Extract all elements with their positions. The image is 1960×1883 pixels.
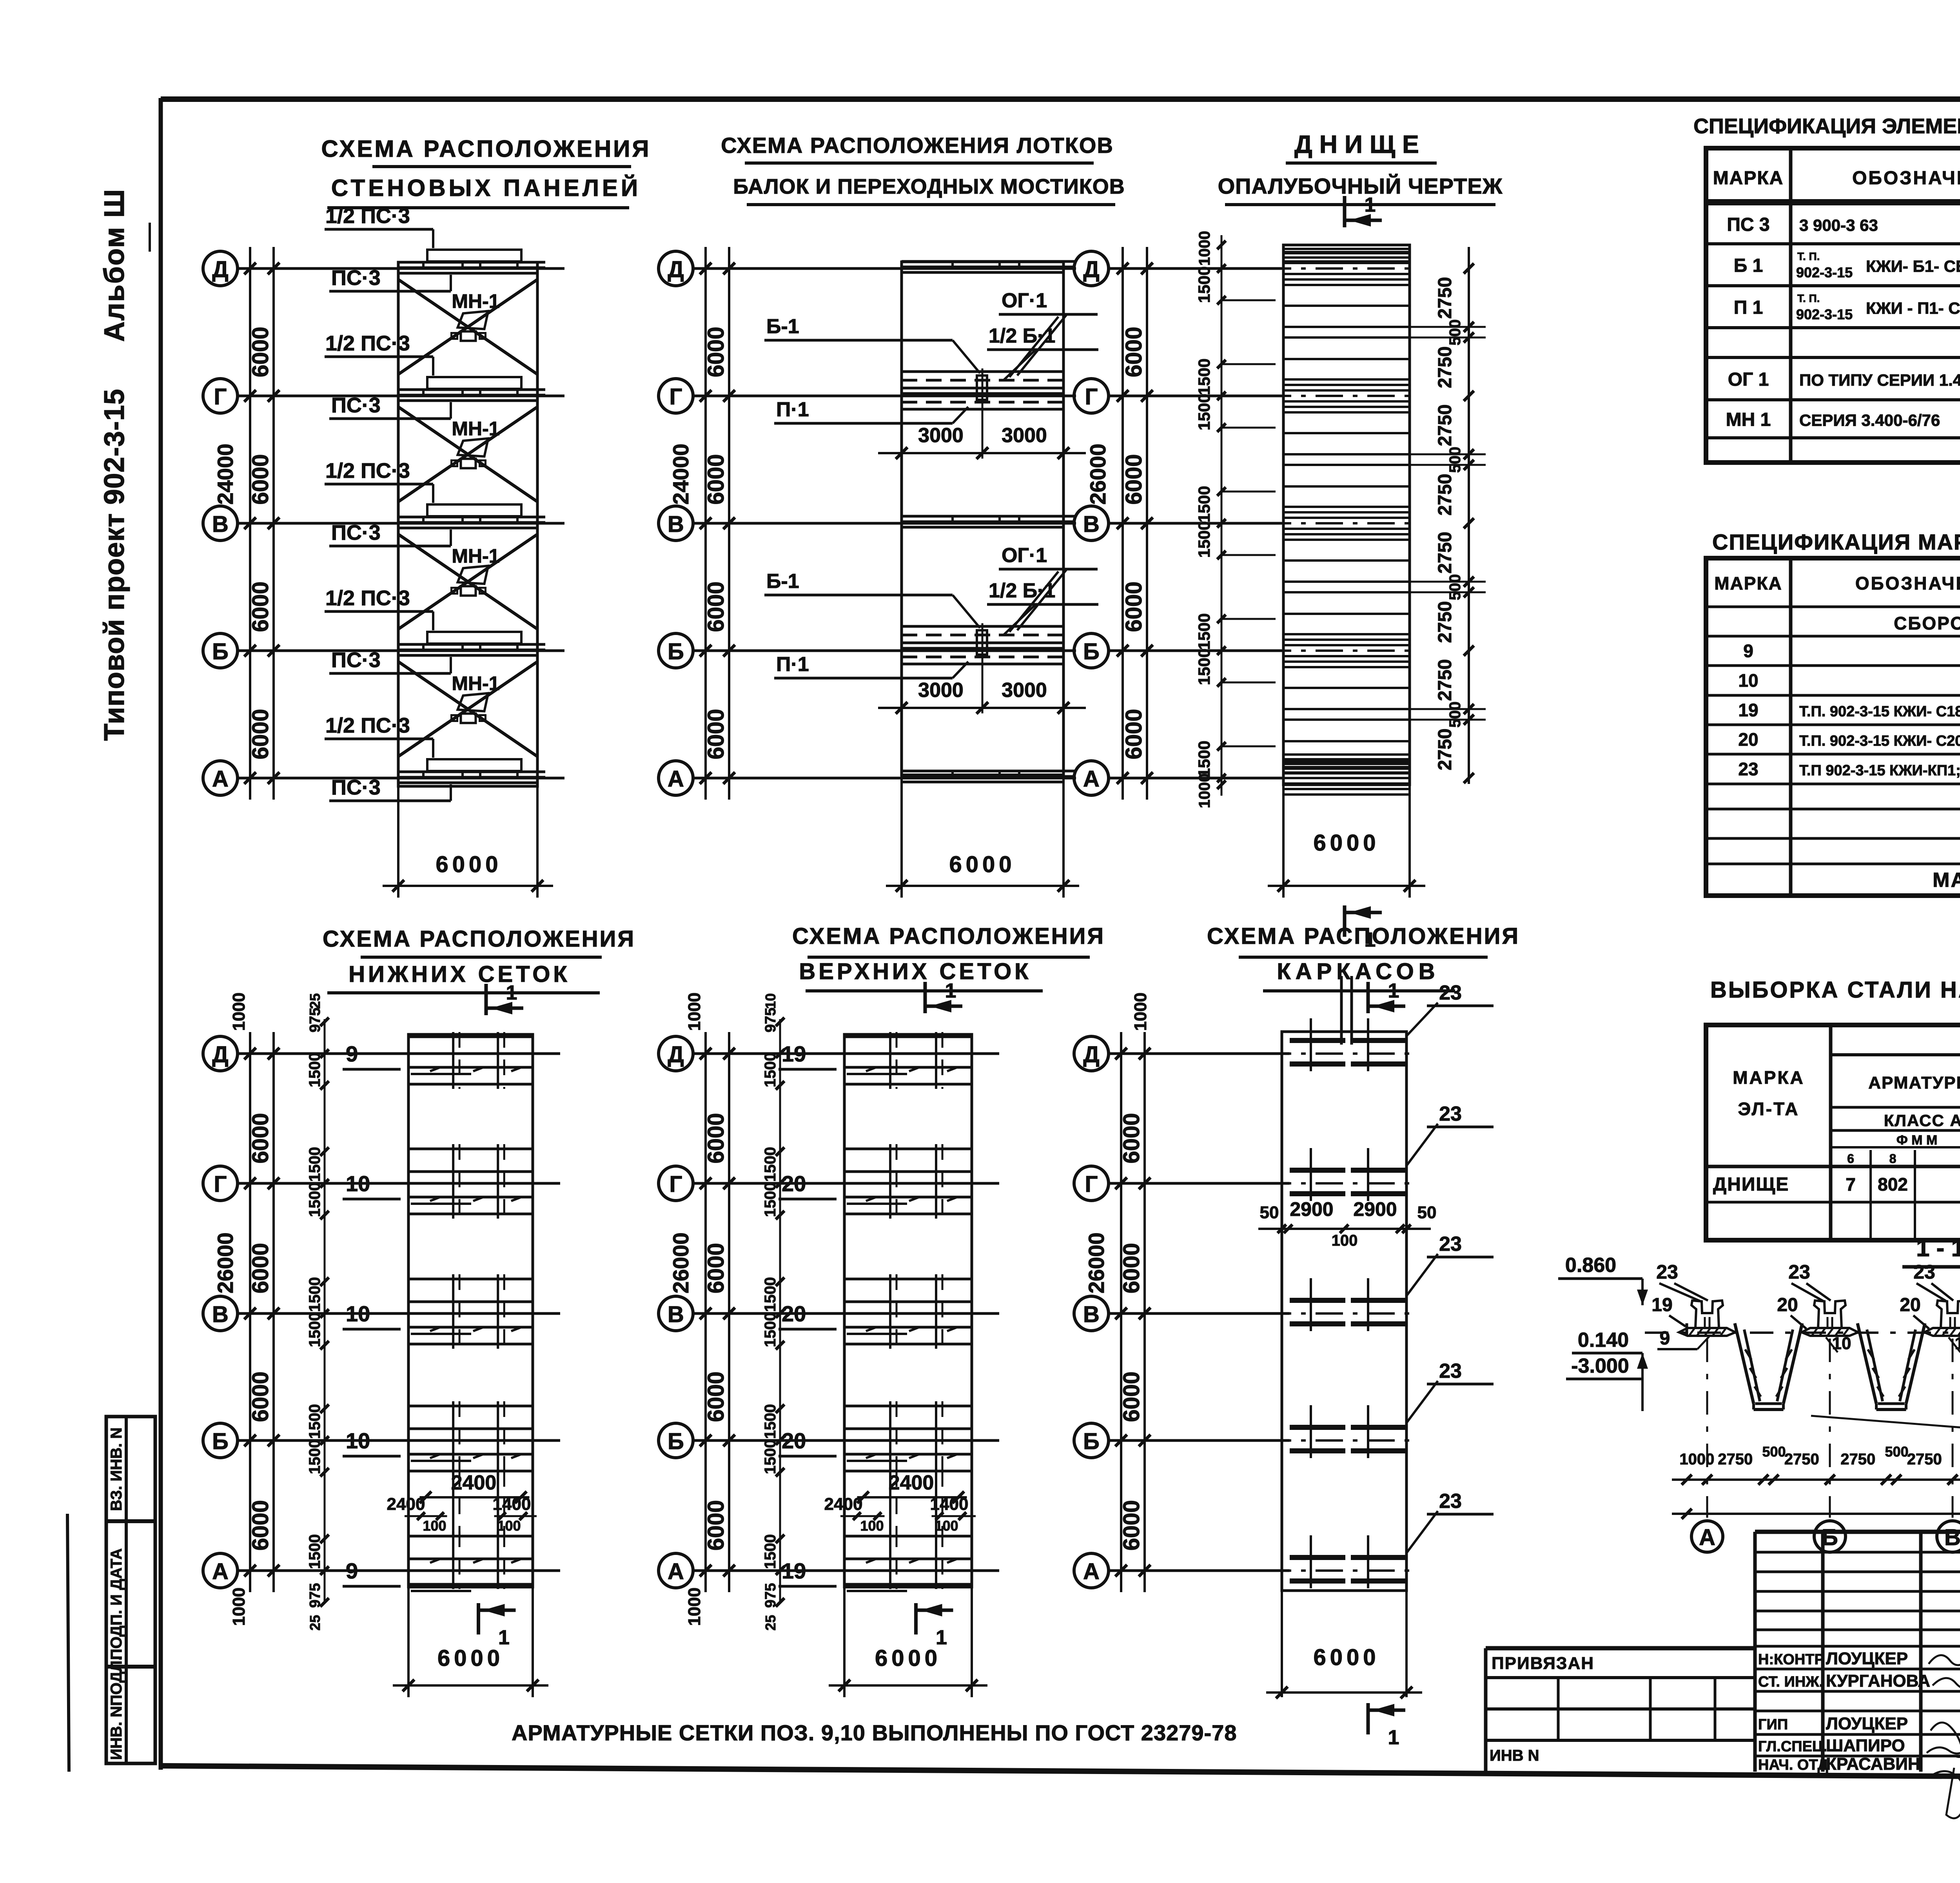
svg-text:9: 9 <box>346 1558 358 1583</box>
svg-text:СЕРИЯ 3.400-6/76: СЕРИЯ 3.400-6/76 <box>1799 411 1940 430</box>
axis circle А <box>203 1553 238 1588</box>
axis line А <box>693 1569 999 1572</box>
svg-text:2750: 2750 <box>1435 277 1455 319</box>
svg-text:6000: 6000 <box>248 1500 273 1551</box>
svg-text:ОГ·1: ОГ·1 <box>1002 544 1047 567</box>
svg-text:Г: Г <box>670 384 682 410</box>
svg-text:23: 23 <box>1913 1261 1935 1283</box>
svg-text:Д: Д <box>668 1042 684 1067</box>
svg-text:П·1: П·1 <box>776 398 809 421</box>
svg-text:1500: 1500 <box>762 1404 779 1439</box>
svg-text:500: 500 <box>1762 1444 1786 1460</box>
signatures (squiggles) <box>1929 1655 1960 1665</box>
svg-text:2400: 2400 <box>824 1495 863 1514</box>
axis line В <box>693 522 1076 525</box>
bridge assembly <box>902 370 1063 373</box>
title block: привязан table <box>1486 1646 1755 1651</box>
lap verticals through Б-А bay <box>889 1471 891 1536</box>
svg-text:МН-1: МН-1 <box>452 545 499 567</box>
svg-text:975: 975 <box>762 1583 779 1608</box>
svg-text:Г: Г <box>1085 384 1098 410</box>
trough band row В <box>902 515 1075 518</box>
svg-text:10: 10 <box>1738 670 1758 691</box>
svg-text:БАЛОК И ПЕРЕХОДНЫХ МОСТИКОВ: БАЛОК И ПЕРЕХОДНЫХ МОСТИКОВ <box>733 175 1125 198</box>
svg-text:2750: 2750 <box>1435 474 1455 516</box>
svg-text:ВЕРХНИХ СЕТОК: ВЕРХНИХ СЕТОК <box>799 959 1031 984</box>
lap verticals through Б-А bay <box>452 1471 454 1536</box>
svg-text:ДНИЩЕ: ДНИЩЕ <box>1713 1174 1789 1195</box>
svg-text:2750: 2750 <box>1435 601 1455 643</box>
svg-text:Т.П. 902-3-15 КЖИ- С20: Т.П. 902-3-15 КЖИ- С20 <box>1799 733 1960 749</box>
svg-text:6000: 6000 <box>703 327 729 377</box>
axis line В <box>1109 1312 1290 1315</box>
svg-text:100: 100 <box>497 1518 521 1534</box>
svg-text:НИЖНИХ СЕТОК: НИЖНИХ СЕТОК <box>348 961 570 987</box>
axis line Г <box>1109 395 1282 397</box>
svg-text:1/2 ПС·3: 1/2 ПС·3 <box>325 459 410 483</box>
offset half-panel rect row В <box>427 504 521 516</box>
svg-text:19: 19 <box>782 1041 806 1066</box>
cage group row А <box>1290 1555 1345 1560</box>
svg-text:6000: 6000 <box>1121 581 1147 632</box>
svg-text:6000: 6000 <box>703 1500 729 1551</box>
axis circle Г <box>1074 379 1109 413</box>
svg-text:Ф М М: Ф М М <box>1896 1133 1938 1148</box>
offset half-panel rect row Б <box>427 632 521 644</box>
svg-text:1500: 1500 <box>762 1277 779 1312</box>
svg-text:ГЛ.СПЕЦ.: ГЛ.СПЕЦ. <box>1758 1738 1827 1755</box>
svg-text:7: 7 <box>1846 1174 1856 1195</box>
cage group row Б <box>1290 1425 1345 1430</box>
svg-text:1500: 1500 <box>306 1277 323 1312</box>
svg-text:1000: 1000 <box>229 992 249 1031</box>
svg-text:КУРГАНОВА: КУРГАНОВА <box>1826 1671 1930 1691</box>
axis line Д <box>238 1052 560 1055</box>
svg-text:ОБОЗНАЧЕНИЕ: ОБОЗНАЧЕНИЕ <box>1855 573 1960 593</box>
svg-text:СПЕЦИФИКАЦИЯ ЭЛЕМЕНТОВ К СХЕМА: СПЕЦИФИКАЦИЯ ЭЛЕМЕНТОВ К СХЕМАМ,РАСПОЛОЖ… <box>1693 114 1960 138</box>
svg-text:1500: 1500 <box>762 1312 779 1347</box>
axis line А <box>1109 777 1282 780</box>
table 1 grid <box>1706 148 1960 463</box>
svg-text:МАРКА: МАРКА <box>1713 168 1784 189</box>
svg-text:СХЕМА РАСПОЛОЖЕНИЯ: СХЕМА РАСПОЛОЖЕНИЯ <box>1207 923 1520 949</box>
cage group row Д <box>1290 1038 1345 1043</box>
svg-text:2750: 2750 <box>1435 729 1455 771</box>
svg-text:3 900-3 63: 3 900-3 63 <box>1799 216 1878 234</box>
svg-text:ИНВ. NПОДЛ.: ИНВ. NПОДЛ. <box>108 1656 125 1760</box>
axis line Б <box>238 1439 560 1442</box>
svg-text:1/2 Б·1: 1/2 Б·1 <box>989 325 1055 347</box>
svg-text:Д: Д <box>212 257 228 282</box>
svg-text:25: 25 <box>307 993 323 1009</box>
offset half-panel rect row Г <box>427 377 521 389</box>
axis circle Д <box>1074 1036 1109 1071</box>
svg-text:6: 6 <box>1847 1152 1854 1166</box>
mesh band row А <box>844 1535 972 1538</box>
svg-text:1500: 1500 <box>1195 267 1213 303</box>
svg-text:ВЫБОРКА СТАЛИ НА ОДИН ЭЛ: ВЫБОРКА СТАЛИ НА ОДИН ЭЛЕМЕНТ КГ <box>1710 977 1960 1003</box>
svg-text:1: 1 <box>1365 194 1376 216</box>
svg-text:1/2 ПС·3: 1/2 ПС·3 <box>325 586 410 610</box>
mesh band row А <box>408 1535 533 1538</box>
svg-text:ПС·3: ПС·3 <box>331 394 381 417</box>
svg-text:В: В <box>1944 1525 1960 1550</box>
svg-text:975: 975 <box>307 1583 323 1608</box>
svg-text:Б: Б <box>1083 639 1100 664</box>
svg-text:СБОРОЧНЫЕ ЕДИНИЦЫ И ДЕТАЛИ: СБОРОЧНЫЕ ЕДИНИЦЫ И ДЕТАЛИ <box>1894 613 1960 633</box>
scheme 3 right dimension chain <box>1468 247 1470 784</box>
svg-text:6000: 6000 <box>1119 1500 1144 1551</box>
svg-text:Альбом Ш: Альбом Ш <box>99 189 130 342</box>
svg-text:6000: 6000 <box>437 1645 504 1671</box>
svg-text:2750: 2750 <box>1435 532 1455 574</box>
axis line Б <box>693 649 1076 652</box>
svg-text:3000: 3000 <box>1002 424 1047 447</box>
svg-text:100: 100 <box>860 1518 884 1534</box>
svg-text:10: 10 <box>762 993 779 1009</box>
brace cross bay 2 <box>398 407 537 502</box>
МН-1 symbol bay 1 <box>458 311 488 329</box>
axis line В <box>238 522 564 525</box>
svg-text:23: 23 <box>1738 759 1758 779</box>
axis circle Б <box>1074 633 1109 668</box>
svg-text:6000: 6000 <box>1121 709 1147 759</box>
svg-text:1500: 1500 <box>306 1312 323 1347</box>
svg-text:1: 1 <box>506 981 517 1004</box>
svg-text:2750: 2750 <box>1784 1451 1819 1468</box>
svg-text:2750: 2750 <box>1435 659 1455 701</box>
svg-text:Б-1: Б-1 <box>766 570 799 593</box>
section mark 1 bottom <box>914 1603 918 1634</box>
brace cross bay 4 <box>398 662 537 756</box>
svg-text:1500: 1500 <box>1195 649 1213 685</box>
axis circle Б <box>203 1423 238 1458</box>
svg-text:24000: 24000 <box>668 444 693 505</box>
svg-text:Д: Д <box>668 257 684 282</box>
dimension line <box>829 1684 987 1687</box>
svg-text:6000: 6000 <box>248 327 273 377</box>
section mark 1 bottom <box>477 1603 480 1634</box>
axis line Б <box>1109 1439 1290 1442</box>
svg-text:8: 8 <box>1889 1152 1896 1166</box>
svg-text:1000: 1000 <box>1131 992 1150 1031</box>
svg-text:2750: 2750 <box>1435 405 1455 446</box>
axis circle А <box>1074 761 1109 795</box>
svg-text:МН-1: МН-1 <box>452 290 499 312</box>
axis circle Б <box>659 633 693 668</box>
axis line Д <box>693 1052 999 1055</box>
svg-text:ВЗ. ИНВ. N: ВЗ. ИНВ. N <box>108 1428 125 1511</box>
dimension verticals <box>704 1032 707 1592</box>
svg-text:1500: 1500 <box>1195 741 1213 777</box>
svg-text:1000: 1000 <box>229 1587 249 1626</box>
svg-text:А: А <box>668 766 684 792</box>
svg-text:6000: 6000 <box>1119 1243 1144 1293</box>
panel band row Г <box>398 388 545 391</box>
svg-text:П·1: П·1 <box>776 653 809 676</box>
svg-text:0.140: 0.140 <box>1578 1329 1629 1351</box>
svg-text:СХЕМА РАСПОЛОЖЕНИЯ: СХЕМА РАСПОЛОЖЕНИЯ <box>323 926 635 952</box>
svg-text:100: 100 <box>935 1518 958 1534</box>
svg-text:20: 20 <box>782 1301 806 1326</box>
svg-text:500: 500 <box>1446 447 1464 473</box>
svg-text:СПЕЦИФИКАЦИЯ МАРОК АРМАТУРНЫ: СПЕЦИФИКАЦИЯ МАРОК АРМАТУРНЫХ ИЗДЕЛИЙ <box>1712 530 1960 554</box>
sheet frame bottom border <box>161 1766 1960 1780</box>
svg-text:10: 10 <box>346 1171 370 1196</box>
svg-text:1400: 1400 <box>493 1495 531 1514</box>
svg-text:9: 9 <box>1743 641 1753 661</box>
near-rect sub dims <box>779 1019 781 1603</box>
near-rect sub dims <box>324 1019 326 1603</box>
svg-text:Б 1: Б 1 <box>1734 256 1763 276</box>
svg-text:В: В <box>1083 512 1100 537</box>
scheme 2 plan rectangle <box>902 262 1063 775</box>
svg-text:902-3-15: 902-3-15 <box>1796 265 1853 281</box>
svg-text:ПС·3: ПС·3 <box>331 648 381 672</box>
svg-text:2750: 2750 <box>1907 1451 1942 1468</box>
svg-text:1500: 1500 <box>306 1404 323 1439</box>
svg-text:802: 802 <box>1878 1174 1908 1195</box>
svg-text:100: 100 <box>423 1518 446 1534</box>
svg-text:6000: 6000 <box>703 1371 729 1422</box>
dimension verticals <box>249 1032 251 1592</box>
axis line А <box>238 777 564 780</box>
svg-text:1000: 1000 <box>685 992 704 1031</box>
svg-text:1/2 ПС·3: 1/2 ПС·3 <box>325 204 410 228</box>
svg-text:26000: 26000 <box>1085 444 1110 505</box>
axis circle Д <box>1074 251 1109 286</box>
svg-text:КЖИ - П1- СБ: КЖИ - П1- СБ <box>1866 299 1960 317</box>
axis circle А <box>659 761 693 795</box>
svg-text:Т. П.: Т. П. <box>1797 250 1820 263</box>
section mark 1 bottom <box>1343 905 1347 937</box>
scheme 1 wall plan rectangle <box>398 262 537 786</box>
svg-text:19: 19 <box>1651 1295 1672 1315</box>
МН-1 symbol bay 3 <box>458 566 488 584</box>
panel band row А <box>398 771 545 773</box>
section mark 1 <box>1343 196 1347 227</box>
table 3 grid outer <box>1706 1025 1960 1240</box>
axis circle Д <box>659 251 693 286</box>
svg-text:ПС·3: ПС·3 <box>331 266 381 290</box>
svg-text:А: А <box>1083 766 1100 792</box>
svg-text:2900: 2900 <box>1290 1198 1333 1220</box>
svg-text:СХЕМА РАСПОЛОЖЕНИЯ: СХЕМА РАСПОЛОЖЕНИЯ <box>792 923 1105 949</box>
svg-text:1500: 1500 <box>306 1182 323 1217</box>
axis circle Б <box>1074 1423 1109 1458</box>
mesh band row В <box>844 1278 972 1281</box>
svg-text:ИНВ N: ИНВ N <box>1490 1747 1539 1764</box>
svg-text:ШАПИРО: ШАПИРО <box>1826 1736 1905 1755</box>
svg-text:100: 100 <box>1332 1232 1358 1249</box>
axis line Д <box>238 267 564 270</box>
svg-text:В: В <box>1083 1302 1100 1327</box>
МН-1 symbol bay 2 <box>458 439 488 457</box>
svg-text:6000: 6000 <box>248 709 273 759</box>
svg-text:ОГ·1: ОГ·1 <box>1002 289 1047 312</box>
axis circle Г <box>659 1166 693 1201</box>
axis circle Б <box>659 1423 693 1458</box>
axis circle Г <box>203 1166 238 1201</box>
svg-text:23: 23 <box>1439 981 1462 1004</box>
dimension line <box>383 885 553 887</box>
sheet frame top border <box>161 96 1960 102</box>
svg-text:1/2 ПС·3: 1/2 ПС·3 <box>325 714 410 737</box>
svg-text:А: А <box>212 766 229 792</box>
svg-text:1500: 1500 <box>762 1052 779 1087</box>
svg-text:1400: 1400 <box>930 1495 969 1514</box>
svg-text:9: 9 <box>1660 1328 1670 1349</box>
svg-text:6000: 6000 <box>875 1645 941 1671</box>
svg-text:2750: 2750 <box>1718 1451 1753 1468</box>
svg-text:26000: 26000 <box>213 1232 238 1293</box>
slab formwork stripes <box>1283 248 1410 250</box>
svg-text:1500: 1500 <box>762 1439 779 1474</box>
svg-text:А: А <box>668 1559 684 1584</box>
svg-text:СХЕМА РАСПОЛОЖЕНИЯ ЛОТКОВ: СХЕМА РАСПОЛОЖЕНИЯ ЛОТКОВ <box>721 133 1114 158</box>
svg-text:6000: 6000 <box>436 852 502 877</box>
svg-text:В: В <box>212 512 229 537</box>
svg-text:ЭЛ-ТА: ЭЛ-ТА <box>1738 1099 1800 1119</box>
svg-text:Г: Г <box>214 1172 227 1197</box>
svg-text:АРМАТУРНЫЕ СЕТКИ ПОЗ. 9,10 ВЫП: АРМАТУРНЫЕ СЕТКИ ПОЗ. 9,10 ВЫПОЛНЕНЫ ПО … <box>512 1720 1237 1745</box>
section mark 1 bottom <box>1367 1703 1370 1734</box>
svg-text:ДНИЩЕ: ДНИЩЕ <box>1294 130 1426 158</box>
axis circle Д <box>659 1036 693 1071</box>
svg-text:1000: 1000 <box>1196 231 1213 266</box>
svg-text:6000: 6000 <box>248 454 273 504</box>
svg-text:НАЧ. ОТД: НАЧ. ОТД <box>1758 1757 1828 1773</box>
svg-text:23: 23 <box>1439 1490 1462 1513</box>
svg-text:10: 10 <box>346 1428 370 1453</box>
svg-text:0.860: 0.860 <box>1565 1254 1616 1277</box>
svg-text:500: 500 <box>1446 319 1464 346</box>
svg-text:1500: 1500 <box>1195 486 1213 522</box>
axis circle В <box>659 506 693 541</box>
svg-text:2750: 2750 <box>1840 1451 1875 1468</box>
svg-text:19: 19 <box>1738 700 1758 720</box>
svg-text:Б: Б <box>212 639 229 664</box>
axis circle А <box>203 761 238 795</box>
svg-text:6000: 6000 <box>1313 830 1379 856</box>
dimension verticals <box>704 247 707 800</box>
section mark 1 <box>924 982 927 1013</box>
svg-text:МАРКА: МАРКА <box>1714 573 1782 593</box>
svg-text:1500: 1500 <box>1195 521 1213 558</box>
title block: signature table <box>1753 1532 1757 1772</box>
svg-text:6000: 6000 <box>949 852 1015 877</box>
axis line В <box>693 1312 999 1315</box>
svg-text:50: 50 <box>1417 1203 1437 1222</box>
svg-text:Т.П 902-3-15 КЖИ-КП1; КП2: Т.П 902-3-15 КЖИ-КП1; КП2 <box>1799 762 1960 779</box>
svg-text:1500: 1500 <box>1195 613 1213 650</box>
axis circle Г <box>203 379 238 413</box>
svg-text:-3.000: -3.000 <box>1571 1355 1629 1377</box>
svg-text:2400: 2400 <box>451 1471 497 1494</box>
svg-text:20: 20 <box>1900 1295 1920 1315</box>
svg-text:ОБОЗНАЧЕНИЕ: ОБОЗНАЧЕНИЕ <box>1852 168 1960 189</box>
mesh plan rectangle <box>844 1034 972 1587</box>
axis line Г <box>693 1182 999 1185</box>
svg-text:ПС 3: ПС 3 <box>1727 214 1769 235</box>
svg-text:6000: 6000 <box>1121 327 1147 377</box>
axis circle А <box>1074 1553 1109 1588</box>
axis circle Д <box>203 251 238 286</box>
brace cross bay 3 <box>398 534 537 629</box>
svg-text:Б: Б <box>1083 1429 1100 1454</box>
trough band row Д <box>902 260 1075 263</box>
svg-text:2400: 2400 <box>889 1471 934 1494</box>
mesh band row В <box>408 1278 533 1281</box>
section mark 1 <box>485 984 488 1015</box>
svg-text:ЛОУЦКЕР: ЛОУЦКЕР <box>1826 1649 1908 1668</box>
mesh band row Д <box>844 1036 972 1038</box>
svg-text:1500: 1500 <box>306 1439 323 1474</box>
svg-text:25: 25 <box>307 1615 323 1631</box>
svg-text:П 1: П 1 <box>1734 298 1763 318</box>
bridge assembly <box>902 625 1063 628</box>
margin stamp boxes bottom-left <box>106 1417 155 1763</box>
axis line Д <box>1109 267 1282 270</box>
svg-text:1000: 1000 <box>1679 1451 1714 1468</box>
dimension line <box>1268 885 1425 887</box>
МН-1 symbol bay 4 <box>458 693 488 711</box>
svg-text:1/2 Б·1: 1/2 Б·1 <box>989 579 1055 602</box>
axis circle Г <box>1074 1166 1109 1201</box>
axis line В <box>238 1312 560 1315</box>
svg-text:АРМАТУРНАЯ СТАЛЬ ГОСТ 5781-75: АРМАТУРНАЯ СТАЛЬ ГОСТ 5781-75 <box>1868 1073 1960 1092</box>
svg-text:1500: 1500 <box>306 1534 323 1569</box>
svg-text:В: В <box>668 512 684 537</box>
dimension verticals <box>1120 1032 1122 1592</box>
svg-text:1/2 ПС·3: 1/2 ПС·3 <box>325 332 410 355</box>
svg-text:ЛОУЦКЕР: ЛОУЦКЕР <box>1826 1714 1908 1733</box>
svg-text:3000: 3000 <box>1002 679 1047 702</box>
mesh plan rectangle <box>408 1034 533 1587</box>
axis circle В <box>659 1296 693 1331</box>
svg-text:Н:КОНТР: Н:КОНТР <box>1758 1651 1824 1668</box>
svg-text:МАРКА: МАРКА <box>1733 1067 1805 1088</box>
svg-text:Б: Б <box>668 639 684 664</box>
axis circle Д <box>203 1036 238 1071</box>
svg-text:1500: 1500 <box>762 1534 779 1569</box>
svg-text:6000: 6000 <box>1119 1371 1144 1422</box>
axis line Б <box>693 1439 999 1442</box>
mesh band row Г <box>844 1148 972 1150</box>
svg-text:6000: 6000 <box>703 581 729 632</box>
svg-text:23: 23 <box>1656 1261 1678 1283</box>
cage group row В <box>1290 1298 1345 1303</box>
offset half-panel rect row Д <box>427 250 521 261</box>
axis circle Г <box>659 379 693 413</box>
axis line Д <box>693 267 1076 270</box>
axis line Г <box>238 1182 560 1185</box>
svg-text:А: А <box>1699 1525 1715 1550</box>
svg-text:МН-1: МН-1 <box>452 673 499 695</box>
svg-text:Типовой проект 902-3-15: Типовой проект 902-3-15 <box>99 388 130 741</box>
svg-text:500: 500 <box>1446 574 1464 600</box>
axis circle В <box>1074 506 1109 541</box>
svg-text:ГИП: ГИП <box>1758 1716 1788 1733</box>
scheme 3 bottom slab rectangle <box>1283 245 1410 785</box>
svg-text:3000: 3000 <box>918 424 964 447</box>
svg-text:Д: Д <box>212 1042 228 1067</box>
scheme 6 cut verticals to Д group <box>1340 976 1343 1045</box>
svg-text:20: 20 <box>1738 729 1758 750</box>
mesh band row Б <box>844 1405 972 1408</box>
svg-text:2750: 2750 <box>1435 346 1455 388</box>
svg-text:Б: Б <box>668 1429 684 1454</box>
